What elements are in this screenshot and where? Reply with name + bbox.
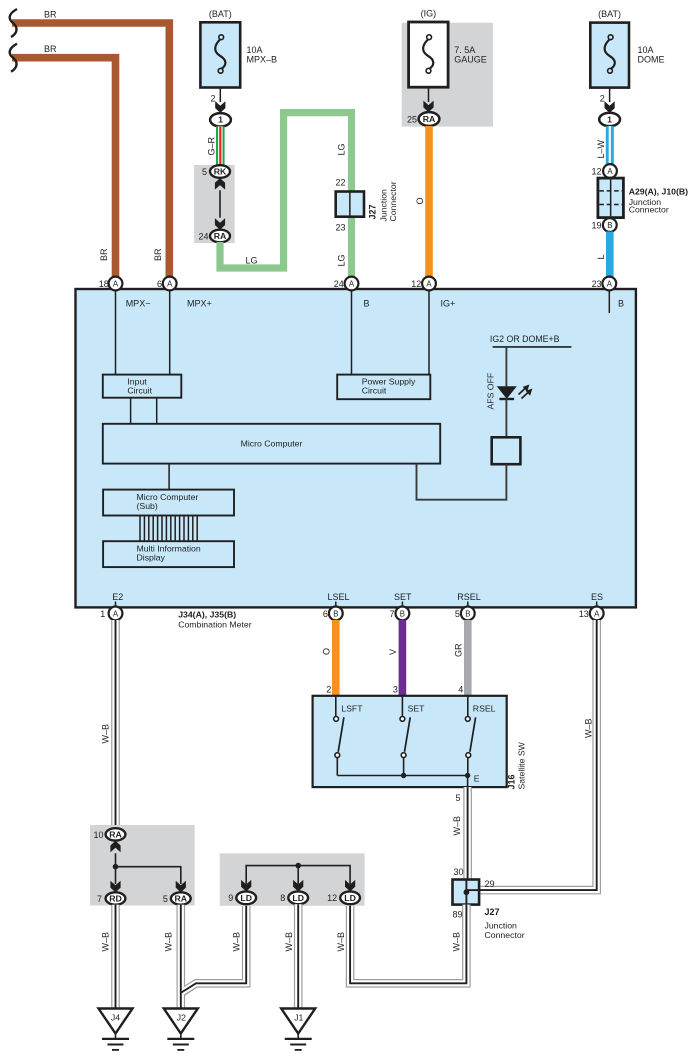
arrow into RA (423, 101, 433, 113)
svg-text:4: 4 (458, 684, 463, 694)
svg-text:19: 19 (591, 220, 601, 230)
svg-text:RK: RK (214, 167, 227, 177)
svg-text:J16: J16 (507, 774, 517, 789)
stub wire terminal 23 (608, 289, 610, 313)
svg-text:8: 8 (280, 893, 285, 903)
connector oval 1 (210, 113, 231, 126)
svg-text:Circuit: Circuit (362, 385, 387, 395)
svg-text:A: A (594, 609, 600, 618)
svg-text:25: 25 (407, 114, 417, 124)
gray background of GAUGE fuse (402, 23, 493, 127)
junction dot SET (401, 773, 406, 778)
svg-text:O: O (415, 197, 425, 204)
svg-text:Junction: Junction (485, 921, 518, 931)
svg-text:V: V (388, 649, 398, 655)
Power Supply Circuit box (337, 375, 430, 400)
svg-text:SET: SET (408, 704, 426, 714)
W-B wire from E2 terminal to 10RA (111, 620, 120, 829)
svg-text:L: L (596, 254, 606, 259)
svg-text:1: 1 (100, 609, 105, 619)
wire W-B from ES down and left to J27 (481, 620, 597, 890)
ground J4 (99, 1009, 133, 1034)
ground J2 (164, 1009, 198, 1034)
svg-text:(BAT): (BAT) (598, 9, 621, 19)
svg-text:LSFT: LSFT (341, 704, 363, 714)
svg-text:J4: J4 (111, 1013, 120, 1023)
svg-text:RA: RA (109, 830, 122, 840)
svg-text:W–B: W–B (584, 718, 594, 738)
svg-text:18: 18 (99, 279, 109, 289)
svg-text:W–B: W–B (452, 932, 462, 952)
svg-text:MPX–B: MPX–B (247, 55, 278, 65)
wire O from LSEL to switch (332, 620, 340, 696)
wire RK to RA (219, 190, 221, 217)
svg-text:Connector: Connector (485, 930, 525, 940)
arrow down into LD9 (241, 880, 251, 892)
svg-text:A: A (349, 280, 355, 289)
svg-text:E: E (474, 773, 480, 783)
svg-text:BR: BR (153, 248, 163, 261)
wire LG from RA to terminal 24 (220, 113, 352, 278)
arrow down into LD12 (345, 880, 355, 892)
wire O from RA to terminal 12 (425, 126, 433, 278)
svg-text:A: A (607, 280, 613, 289)
svg-text:24: 24 (198, 231, 208, 241)
svg-text:(IG): (IG) (421, 9, 437, 19)
wire fuse GAUGE to RA (428, 87, 430, 102)
svg-text:BR: BR (44, 44, 57, 54)
wire BR (top) to MPX+ terminal (12, 23, 169, 278)
wire node to LED (505, 347, 507, 386)
bottom stubs (115, 602, 117, 608)
wire BR (second) to MPX- terminal (12, 58, 116, 278)
W-B wire RD to ground J4 (111, 905, 120, 1009)
svg-text:BR: BR (99, 248, 109, 261)
bus wire across LD box (246, 866, 350, 884)
svg-text:2: 2 (210, 94, 215, 104)
combination meter main box (76, 289, 636, 607)
svg-text:SET: SET (394, 592, 412, 602)
wire G-R (216, 126, 225, 166)
gray box RK/RA (194, 165, 235, 243)
svg-text:Connector: Connector (388, 181, 398, 221)
svg-text:A: A (607, 167, 613, 176)
svg-text:LD: LD (344, 893, 356, 903)
Micro Computer (Sub) box (103, 490, 234, 516)
svg-text:5: 5 (455, 609, 460, 619)
svg-text:(BAT): (BAT) (209, 9, 232, 19)
svg-text:23: 23 (335, 223, 345, 233)
svg-text:W–B: W–B (232, 932, 242, 952)
Multi Information Display box (103, 541, 234, 567)
gray box LD/LD/LD (220, 853, 365, 905)
svg-text:GAUGE: GAUGE (454, 55, 487, 65)
svg-text:J34(A), J35(B): J34(A), J35(B) (178, 610, 236, 620)
svg-text:10A: 10A (247, 45, 263, 55)
Micro Computer box (103, 424, 440, 464)
svg-text:G–R: G–R (207, 136, 217, 155)
svg-text:LSEL: LSEL (327, 592, 349, 602)
Input Circuit box (103, 375, 182, 398)
svg-text:LG: LG (337, 143, 347, 155)
svg-text:5: 5 (455, 793, 460, 803)
wire LED to resistor (505, 399, 507, 438)
wire RA10 to junction (115, 853, 117, 866)
svg-text:7: 7 (97, 894, 102, 904)
stub wire terminal 18 to Input Circuit (115, 289, 117, 375)
fuse MPX-B element (215, 39, 225, 69)
svg-text:7: 7 (389, 609, 394, 619)
arrow up into RK (215, 178, 225, 190)
svg-text:IG+: IG+ (441, 299, 456, 309)
fuse GAUGE element (423, 39, 433, 69)
wire V from SET to switch (399, 620, 407, 696)
svg-text:J27: J27 (368, 204, 378, 219)
svg-text:GR: GR (454, 643, 464, 657)
wire fuse DOME to pin 1 (609, 88, 611, 102)
svg-text:L–W: L–W (596, 139, 606, 158)
ground J1 (281, 1009, 315, 1034)
svg-text:(Sub): (Sub) (137, 501, 158, 511)
svg-text:A: A (113, 280, 119, 289)
svg-text:MPX+: MPX+ (187, 299, 212, 309)
stub wire terminal 24 to Power Supply (351, 289, 353, 375)
svg-text:J2: J2 (177, 1013, 186, 1023)
svg-text:B: B (333, 609, 338, 618)
svg-text:5: 5 (202, 167, 207, 177)
svg-text:B: B (364, 299, 370, 309)
svg-text:AFS OFF: AFS OFF (486, 373, 496, 410)
stub wire terminal 12 to Power Supply (428, 289, 430, 375)
svg-text:IG2 OR DOME+B: IG2 OR DOME+B (490, 334, 560, 344)
svg-text:A29(A), J10(B): A29(A), J10(B) (629, 186, 688, 196)
svg-text:B: B (607, 221, 612, 230)
resistor box (492, 437, 521, 464)
junction dot (113, 864, 119, 870)
svg-text:Connector: Connector (629, 205, 669, 215)
svg-text:O: O (322, 648, 332, 655)
fuse GAUGE box (409, 22, 449, 87)
svg-text:2: 2 (326, 684, 331, 694)
svg-text:B: B (618, 299, 624, 309)
switch common bus to E (337, 776, 467, 788)
svg-text:RA: RA (423, 114, 436, 124)
fuse DOME element (605, 39, 615, 69)
junction dot (295, 863, 301, 869)
svg-text:7. 5A: 7. 5A (454, 45, 475, 55)
svg-text:A: A (167, 280, 173, 289)
branch wires to RD/RA (116, 867, 181, 884)
svg-text:12: 12 (591, 167, 601, 177)
svg-text:J27: J27 (485, 907, 500, 917)
arrow into pin 1 (605, 101, 615, 113)
junction connector A29/J10 (598, 178, 624, 218)
svg-text:13: 13 (579, 609, 589, 619)
junction dot E (465, 773, 470, 778)
connector oval 1 (599, 113, 620, 126)
svg-text:3: 3 (393, 684, 398, 694)
svg-text:RA: RA (175, 894, 188, 904)
svg-text:23: 23 (592, 279, 602, 289)
svg-text:12: 12 (411, 279, 421, 289)
svg-text:RSEL: RSEL (473, 704, 496, 714)
svg-text:E2: E2 (112, 592, 123, 602)
svg-text:Circuit: Circuit (127, 385, 152, 395)
svg-text:LD: LD (292, 893, 304, 903)
fuse DOME box (590, 23, 629, 88)
stub wire terminal 6 to Input Circuit (169, 289, 171, 375)
arrow down into RA (215, 218, 225, 230)
arrow up into RA10 (110, 841, 120, 853)
ribbon hatch lines (140, 516, 197, 542)
svg-text:RA: RA (214, 231, 227, 241)
wire-break squiggle second (10, 44, 17, 72)
svg-text:9: 9 (228, 893, 233, 903)
gray box RA/RD/RA (90, 825, 195, 906)
svg-text:Display: Display (137, 552, 166, 562)
wire GR from RSEL to switch (464, 620, 472, 696)
svg-text:10A: 10A (638, 45, 654, 55)
wire Micro Computer to Sub (168, 464, 170, 490)
svg-text:MPX−: MPX− (126, 299, 151, 309)
W-B wire from J27 down, left to 12LD column (350, 905, 466, 984)
svg-text:J1: J1 (294, 1013, 303, 1023)
svg-text:Combination Meter: Combination Meter (178, 620, 252, 630)
svg-text:6: 6 (157, 279, 162, 289)
junction connector J27 (bottom) (453, 880, 480, 905)
svg-text:B: B (400, 609, 405, 618)
fuse MPX-B box (200, 22, 240, 87)
W-B wire LD8 to ground J1 (294, 904, 303, 1008)
wire L-W (606, 126, 614, 165)
svg-text:2: 2 (600, 94, 605, 104)
satellite switch box J16 (313, 696, 507, 787)
svg-text:W–B: W–B (101, 932, 111, 952)
svg-text:A: A (113, 609, 119, 618)
svg-text:DOME: DOME (638, 55, 665, 65)
svg-text:1: 1 (607, 115, 612, 125)
wire L (606, 232, 614, 279)
svg-text:B: B (465, 609, 470, 618)
svg-text:W–B: W–B (164, 932, 174, 952)
svg-text:22: 22 (335, 178, 345, 188)
svg-text:A: A (426, 280, 432, 289)
svg-text:24: 24 (334, 279, 344, 289)
wire fuse MPX-B to pin 1 (219, 88, 221, 103)
svg-text:LG: LG (246, 256, 258, 266)
svg-text:LG: LG (337, 254, 347, 266)
arrow down into RD (110, 881, 120, 893)
svg-text:RD: RD (109, 894, 122, 904)
svg-text:BR: BR (44, 10, 57, 20)
svg-text:Junction: Junction (379, 189, 389, 222)
svg-text:W–B: W–B (336, 932, 346, 952)
svg-text:1: 1 (218, 115, 223, 125)
wires Input Circuit to Micro Computer (130, 398, 132, 424)
wire-break squiggle top (10, 9, 17, 37)
wire resistor to Micro Computer (417, 464, 507, 500)
svg-text:5: 5 (163, 894, 168, 904)
svg-text:W–B: W–B (284, 932, 294, 952)
svg-text:RSEL: RSEL (457, 592, 481, 602)
svg-text:Micro Computer: Micro Computer (241, 439, 303, 449)
svg-text:30: 30 (453, 867, 463, 877)
svg-text:6: 6 (323, 609, 328, 619)
LED AFS OFF (497, 386, 517, 399)
W-B wire switch E to J27 (463, 787, 472, 879)
svg-text:Satellite SW: Satellite SW (517, 741, 527, 789)
svg-text:LD: LD (240, 893, 252, 903)
svg-text:12: 12 (327, 893, 337, 903)
svg-text:W–B: W–B (452, 816, 462, 836)
svg-text:10: 10 (93, 830, 103, 840)
arrow down into LD8 (293, 880, 303, 892)
svg-text:29: 29 (485, 879, 495, 889)
arrow down into RA5 (176, 881, 186, 893)
arrow into pin 1 (215, 101, 225, 113)
svg-text:ES: ES (591, 592, 603, 602)
W-B wire RA5 to ground J2 (177, 905, 186, 1009)
svg-text:89: 89 (453, 910, 463, 920)
svg-text:W–B: W–B (101, 724, 111, 744)
